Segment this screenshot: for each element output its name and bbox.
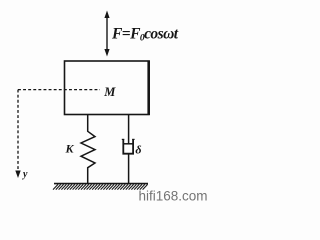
svg-text:δ: δ (135, 142, 141, 156)
svg-text:hifi168.com: hifi168.com (139, 189, 208, 204)
svg-text:F=F0cosωt: F=F0cosωt (111, 25, 179, 43)
svg-text:M: M (103, 85, 116, 99)
svg-text:K: K (65, 141, 75, 155)
svg-text:y: y (22, 169, 28, 180)
